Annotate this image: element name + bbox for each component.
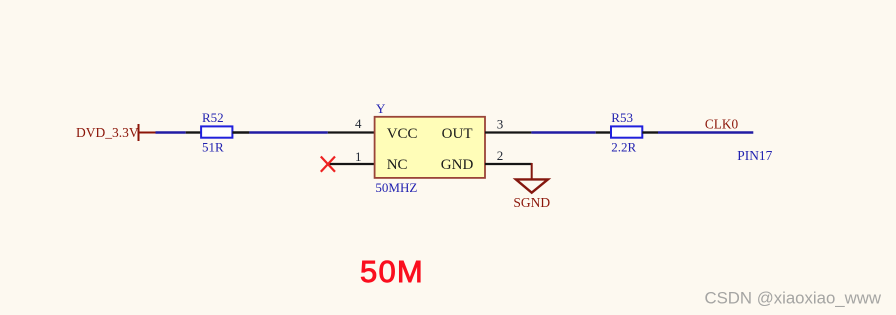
svg-text:R53: R53 [611,110,633,125]
svg-text:Y: Y [376,101,386,116]
wire pin 3 to R53 [531,131,595,133]
svg-text:SGND: SGND [513,195,550,210]
svg-text:50MHZ: 50MHZ [375,180,417,195]
ground SGND drop wire [531,163,533,179]
ground SGND triangle [516,179,548,192]
power port DVD_3.3V bar [138,124,140,141]
svg-text:1: 1 [355,149,362,164]
svg-text:2.2R: 2.2R [611,140,636,155]
resistor R53 right lead [642,131,658,133]
svg-text:R52: R52 [202,110,224,125]
oscillator Y pin 3 [485,131,531,133]
svg-text:3: 3 [497,117,504,132]
resistor R53 body [611,126,642,137]
no-connect X on pin 1 [321,157,335,172]
svg-text:51R: 51R [202,140,224,155]
resistor R52 right lead [232,131,249,133]
wire port to R52 [156,131,186,133]
svg-text:GND: GND [441,157,474,173]
oscillator Y body [375,117,485,178]
wire R52 to pin 4 [249,131,327,133]
svg-text:2: 2 [497,148,504,163]
resistor R52 body [201,126,232,137]
wire R53 to CLK0 [658,131,753,133]
svg-text:CSDN @xiaoxiao_www: CSDN @xiaoxiao_www [704,288,881,307]
svg-text:4: 4 [355,116,362,131]
svg-text:NC: NC [387,157,408,173]
svg-text:OUT: OUT [442,126,473,142]
resistor R53 left lead [596,131,611,133]
svg-text:50M: 50M [360,254,424,289]
svg-text:PIN17: PIN17 [737,148,772,163]
svg-text:CLK0: CLK0 [705,117,739,132]
svg-text:DVD_3.3V: DVD_3.3V [76,125,139,140]
oscillator Y pin 1 [328,163,375,165]
oscillator Y pin 4 [328,131,375,133]
resistor R52 left lead [186,131,201,133]
oscillator Y pin 2 [485,163,532,165]
power port DVD_3.3V stub [139,132,156,134]
svg-text:VCC: VCC [387,126,418,142]
